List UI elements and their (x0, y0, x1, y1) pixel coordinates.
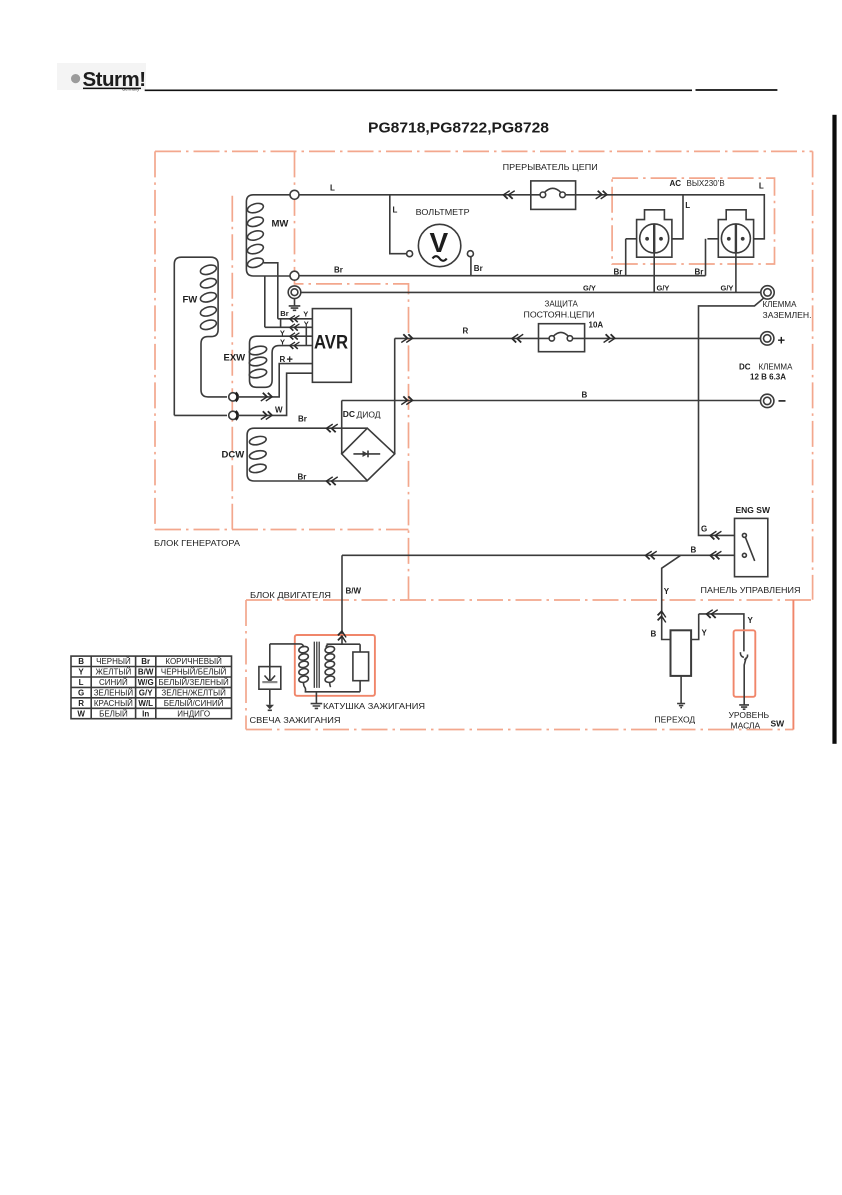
svg-text:10A: 10A (589, 321, 604, 330)
svg-text:Y: Y (702, 629, 708, 638)
svg-text:W: W (77, 709, 85, 718)
DC plus terminal (761, 332, 774, 345)
svg-text:БЕЛЫЙ/СИНИЙ: БЕЛЫЙ/СИНИЙ (164, 699, 224, 708)
wire FW bottom to terminal CN1 (210, 396, 227, 398)
connector terminal CN2 (229, 411, 238, 419)
svg-text:L: L (393, 206, 398, 215)
ignition coil orange box (295, 635, 375, 696)
svg-text:EXW: EXW (224, 353, 246, 364)
svg-text:ЗАЗЕМЛЕН.: ЗАЗЕМЛЕН. (763, 311, 812, 320)
header rule right (696, 89, 778, 91)
wire G from clamp to ENG SW (699, 298, 764, 535)
wire AVR row1 jog to row2 (280, 319, 282, 328)
wire B bus DC minus (342, 400, 761, 402)
svg-text:ЧЕРНЫЙ/БЕЛЫЙ: ЧЕРНЫЙ/БЕЛЫЙ (161, 668, 227, 677)
wire perekhod ground (680, 676, 682, 704)
spark plug E1 (259, 644, 281, 710)
svg-text:СВЕЧА ЗАЖИГАНИЯ: СВЕЧА ЗАЖИГАНИЯ (250, 715, 341, 725)
voltmeter V1 (407, 224, 474, 266)
svg-text:Br: Br (695, 268, 704, 277)
svg-text:Br: Br (614, 268, 623, 277)
wire CN1 to AVR R+ (238, 364, 313, 397)
svg-text:БЛОК ДВИГАТЕЛЯ: БЛОК ДВИГАТЕЛЯ (250, 591, 331, 600)
ground terminal circle (288, 286, 301, 299)
wire AVR row2 jog to row3 (305, 327, 307, 336)
oil level switch contact (740, 652, 747, 705)
wire voltmeter Br drop (470, 257, 472, 276)
right margin black bar (832, 115, 836, 744)
switch ENG SW (735, 518, 768, 576)
svg-text:ПОСТОЯН.ЦЕПИ: ПОСТОЯН.ЦЕПИ (524, 311, 595, 320)
connector terminal CN1 (229, 393, 238, 401)
ground symbol below terminal (289, 299, 301, 311)
svg-text:Y: Y (748, 616, 754, 625)
svg-text:Y: Y (303, 310, 308, 319)
wire voltmeter L branch (390, 195, 407, 254)
engine block dashed frame (246, 600, 813, 730)
svg-text:In: In (142, 709, 149, 718)
svg-text:ИНДИГО: ИНДИГО (177, 709, 210, 718)
oil level switch orange box (734, 630, 756, 697)
svg-text:Y: Y (78, 668, 84, 677)
circuit breaker CB1 (531, 181, 576, 210)
op-amp block AVR U1 (312, 309, 351, 383)
ignition coil T1 (270, 642, 369, 692)
DC minus terminal (761, 394, 774, 407)
svg-text:L: L (330, 184, 335, 193)
svg-text:DCW: DCW (222, 450, 245, 461)
svg-text:+: + (287, 354, 293, 366)
svg-text:ВОЛЬТМЕТР: ВОЛЬТМЕТР (416, 208, 470, 217)
svg-text:DC: DC (343, 409, 355, 419)
wire B to ENG SW (342, 555, 735, 639)
svg-text:B: B (691, 546, 697, 555)
terminal L circle (290, 190, 299, 199)
svg-text:B/W: B/W (138, 668, 154, 677)
svg-text:БЕЛЫЙ: БЕЛЫЙ (99, 709, 128, 718)
svg-text:SW: SW (771, 719, 786, 729)
svg-text:ПРЕРЫВАТЕЛЬ ЦЕПИ: ПРЕРЫВАТЕЛЬ ЦЕПИ (503, 163, 598, 172)
svg-text:Germany: Germany (122, 87, 140, 92)
wire perekhod out right to oil level (691, 614, 744, 652)
wire R bus (395, 337, 761, 339)
ground symbol perekhod (677, 704, 685, 708)
svg-text:12 В 6.3А: 12 В 6.3А (750, 373, 786, 382)
svg-text:КЛЕММА: КЛЕММА (759, 363, 794, 372)
wire arrows (flow chevrons) (261, 191, 722, 643)
svg-text:КАТУШКА ЗАЖИГАНИЯ: КАТУШКА ЗАЖИГАНИЯ (323, 701, 425, 711)
wire L bus (299, 195, 764, 239)
AVR area dashed box edge (295, 151, 409, 600)
ground symbol oil level (739, 705, 749, 709)
svg-text:R: R (280, 355, 286, 364)
generator block dashed frame (155, 151, 813, 599)
svg-text:КЛЕММА: КЛЕММА (763, 300, 798, 309)
svg-text:ЗЕЛЕН/ЖЕЛТЫЙ: ЗЕЛЕН/ЖЕЛТЫЙ (161, 688, 226, 697)
svg-text:FW: FW (183, 295, 198, 306)
svg-text:W/G: W/G (138, 678, 154, 687)
MW tap wire to AVR row1 (Br) (264, 263, 313, 319)
svg-text:L: L (759, 182, 764, 191)
svg-text:B: B (78, 657, 84, 666)
fuse F1 10A (539, 324, 585, 352)
svg-text:Y: Y (280, 328, 285, 337)
winding FW (174, 257, 218, 415)
engine block right solid orange edge (792, 600, 794, 730)
svg-text:Br: Br (298, 473, 307, 482)
svg-text:AVR: AVR (314, 332, 348, 354)
header rule left (145, 89, 692, 91)
wire AVR row3 jog to row4 (305, 336, 307, 345)
wire B/W drop to ignition coil (341, 555, 343, 644)
wire outlet2 Br drop (705, 239, 707, 276)
transition block ПЕРЕХОД (671, 630, 692, 676)
wire CN2 to AVR W (238, 373, 313, 415)
svg-text:G/Y: G/Y (583, 284, 596, 293)
svg-text:ЖЕЛТЫЙ: ЖЕЛТЫЙ (96, 668, 132, 677)
winding DCW (222, 428, 368, 481)
svg-text:R: R (463, 327, 469, 336)
svg-text:СИНИЙ: СИНИЙ (99, 678, 128, 687)
svg-text:БЕЛЫЙ/ЗЕЛЕНЫЙ: БЕЛЫЙ/ЗЕЛЕНЫЙ (159, 678, 230, 687)
svg-text:AC: AC (670, 179, 682, 188)
svg-text:ПЕРЕХОД: ПЕРЕХОД (655, 715, 696, 725)
svg-text:G/Y: G/Y (721, 284, 734, 293)
svg-text:+: + (778, 333, 786, 348)
wire outlet1 GY drop (653, 252, 655, 292)
svg-text:B: B (651, 630, 657, 639)
svg-text:L: L (685, 201, 690, 210)
svg-text:G: G (78, 688, 84, 697)
wire Br bus (299, 275, 706, 277)
label minus (779, 400, 786, 402)
svg-text:КРАСНЫЙ: КРАСНЫЙ (94, 699, 133, 708)
svg-text:G: G (701, 525, 707, 534)
svg-text:DC: DC (739, 363, 751, 372)
svg-text:БЛОК ГЕНЕРАТОРА: БЛОК ГЕНЕРАТОРА (154, 539, 241, 548)
wire FW left edge to terminal CN2 (174, 414, 227, 416)
svg-text:Br: Br (280, 309, 288, 318)
svg-text:КОРИЧНЕВЫЙ: КОРИЧНЕВЫЙ (165, 657, 222, 666)
svg-text:ЗАЩИТА: ЗАЩИТА (545, 300, 579, 309)
svg-text:W/L: W/L (138, 699, 153, 708)
svg-text:ENG SW: ENG SW (736, 505, 771, 515)
svg-text:W: W (275, 406, 283, 415)
svg-text:ВЫХ230’В: ВЫХ230’В (687, 179, 725, 188)
wire L branch outlet1 (672, 195, 683, 239)
svg-text:V: V (430, 227, 449, 258)
logo Sturm! (57, 63, 146, 92)
wire outlet1 Br drop (625, 239, 627, 276)
svg-text:B/W: B/W (346, 587, 362, 596)
wire diode left vertex to B bus (341, 401, 343, 454)
ground symbol ignition coil (311, 704, 323, 709)
AC outlet X1 (626, 210, 683, 257)
AC outlets dashed box (612, 178, 774, 264)
diode bridge DC (342, 428, 395, 480)
svg-text:ЧЕРНЫЙ: ЧЕРНЫЙ (96, 657, 131, 666)
svg-text:УРОВЕНЬ: УРОВЕНЬ (729, 710, 770, 720)
svg-text:ПАНЕЛЬ УПРАВЛЕНИЯ: ПАНЕЛЬ УПРАВЛЕНИЯ (701, 585, 801, 595)
svg-text:Br: Br (334, 266, 343, 275)
svg-text:Br: Br (298, 415, 307, 424)
wire ignition coil ground (315, 692, 317, 704)
generator block inner dashed left edge (231, 196, 233, 530)
svg-text:L: L (79, 678, 84, 687)
wire outlet2 GY drop (735, 252, 737, 292)
ground clamp terminal (761, 286, 774, 299)
AC outlet X2 (707, 210, 764, 257)
winding EXW (224, 336, 313, 387)
svg-text:Y: Y (280, 337, 285, 346)
svg-text:ДИОД: ДИОД (357, 409, 381, 419)
svg-text:R: R (78, 699, 84, 708)
svg-text:B: B (582, 391, 588, 400)
svg-text:Y: Y (304, 319, 309, 328)
wire color table (71, 656, 232, 719)
svg-text:ЗЕЛЕНЫЙ: ЗЕЛЕНЫЙ (94, 688, 134, 697)
MW bottom tap wire to AVR row2 (265, 276, 313, 327)
svg-text:PG8718,PG8722,PG8728: PG8718,PG8722,PG8728 (368, 121, 549, 137)
svg-text:Y: Y (664, 587, 670, 596)
svg-text:MW: MW (272, 219, 289, 230)
wire GY bus (301, 291, 761, 293)
terminal Br circle (290, 271, 299, 280)
svg-text:Br: Br (141, 657, 150, 666)
svg-text:G/Y: G/Y (139, 688, 153, 697)
winding MW (246, 195, 294, 276)
svg-text:Br: Br (474, 264, 483, 273)
svg-text:G/Y: G/Y (657, 284, 670, 293)
svg-text:МАСЛА: МАСЛА (731, 721, 761, 731)
wire diode right vertex to R bus (394, 338, 396, 454)
